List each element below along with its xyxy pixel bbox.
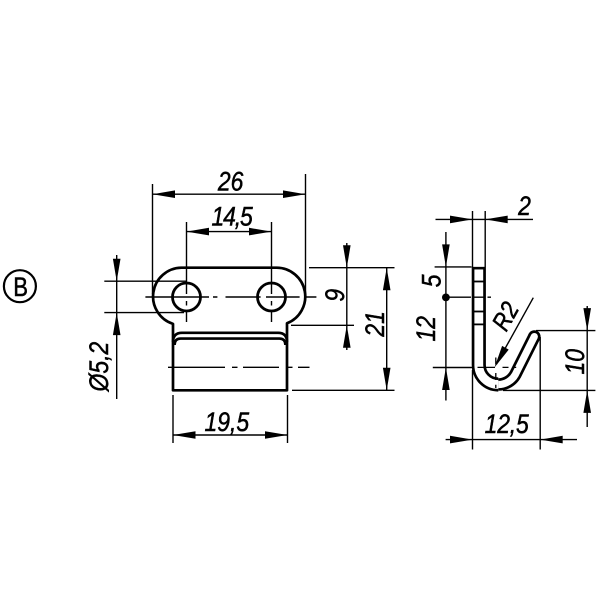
side view: hole centerline dash-dot — [446, 296, 472, 298]
svg-text:12,5: 12,5 — [485, 409, 529, 439]
dimension 12 arrow — [442, 368, 450, 391]
R2 leader — [497, 298, 534, 364]
chain dot at hole center height — [442, 294, 450, 302]
svg-text:B: B — [13, 273, 28, 303]
svg-text:14,5: 14,5 — [211, 202, 252, 232]
front view: hook tip end edge — [175, 339, 286, 345]
side view: plate bottom edge line — [474, 323, 485, 325]
svg-text:9: 9 — [320, 289, 350, 302]
dimension 5 and 12 chain line — [433, 232, 474, 401]
dimension diameter 5,2 — [104, 255, 186, 399]
dimension 10 — [503, 306, 595, 427]
side view: hole hidden line top — [474, 281, 485, 283]
svg-text:2: 2 — [517, 191, 531, 221]
dimension 19,5 — [173, 395, 288, 443]
front view: bracket outline — [153, 268, 305, 391]
dimension 14,5 — [187, 222, 272, 322]
front view: hook tip upper edge — [173, 333, 287, 342]
svg-text:5: 5 — [417, 274, 447, 287]
svg-text:19,5: 19,5 — [204, 407, 249, 437]
svg-text:21: 21 — [360, 311, 390, 337]
front view: bend axis centerline — [168, 366, 310, 368]
dimension 5 arrow — [442, 244, 450, 267]
side view: strip top edge — [472, 267, 485, 270]
view B label circle — [4, 270, 36, 302]
side view: hole hidden line bottom — [474, 311, 485, 313]
front view: right hole — [258, 283, 286, 311]
side view: hook body (black fill then white core) — [479, 267, 499, 385]
svg-text:Ø5,2: Ø5,2 — [84, 342, 114, 393]
dimension 12,5 — [446, 337, 577, 450]
dimension 26 — [153, 174, 306, 294]
front view: left hole — [173, 283, 201, 311]
front view: horizontal hole centerline — [145, 296, 316, 298]
dimension 9 — [291, 243, 395, 350]
svg-text:12: 12 — [411, 316, 441, 342]
svg-text:26: 26 — [217, 167, 243, 197]
side view: bend center cross — [478, 366, 517, 368]
dimension 2 — [436, 211, 534, 267]
svg-text:10: 10 — [560, 349, 590, 375]
dimension 21 — [292, 268, 395, 391]
